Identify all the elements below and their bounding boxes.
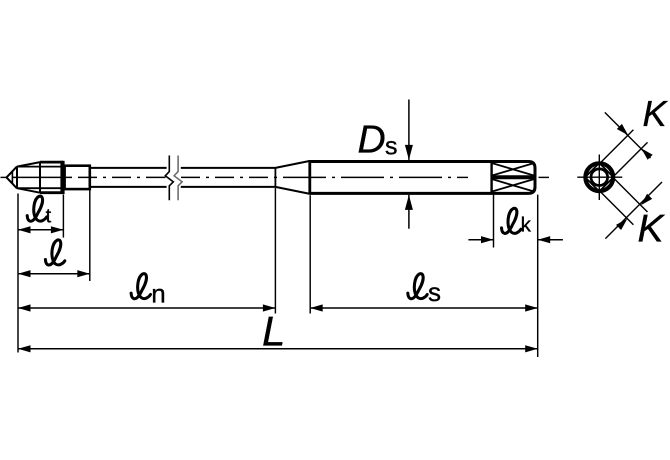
label ln: [131, 274, 150, 299]
thread crest chamfer slope: [17, 162, 40, 167]
extension line at shank start: [309, 195, 311, 313]
svg-text:L: L: [262, 308, 285, 355]
extension line at tap end (right datum): [537, 195, 539, 357]
thread full-diameter start line: [39, 162, 41, 194]
label lk: [502, 208, 521, 233]
break line right: [174, 156, 182, 201]
K bottom dimension line: [605, 182, 662, 239]
end view inner circle: [591, 169, 608, 186]
extension line at thread end: [89, 190, 91, 281]
K bottom extension lines: [601, 193, 633, 225]
neck end line: [274, 168, 276, 187]
svg-text:K: K: [643, 93, 669, 134]
dim ls: [310, 307, 538, 309]
dim L: [18, 348, 538, 350]
thread runout block: [65, 166, 90, 189]
dim ln: [18, 307, 275, 309]
thread end thick line: [60, 161, 64, 194]
shank outline: [310, 162, 535, 194]
extension line at square start: [493, 195, 495, 248]
extension line at neck end: [274, 188, 276, 314]
K top dimension line: [605, 112, 651, 158]
neck top edge: [90, 167, 167, 169]
shank start line: [308, 160, 311, 194]
square section center bar: [492, 175, 535, 179]
extension line at thread start (left datum): [17, 194, 19, 353]
centerline: [1, 176, 7, 178]
svg-text:K: K: [638, 208, 666, 251]
label lt: [27, 196, 46, 221]
thread minor-diameter lines: [17, 166, 63, 168]
dim lk (outside arrows): [468, 239, 493, 241]
end view outer circle: [585, 163, 613, 191]
shank taper: [275, 161, 310, 168]
end view square (rotated 45): [585, 163, 613, 191]
extension line at chamfer end: [62, 194, 64, 237]
tip chamfer cone: [7, 166, 18, 177]
dim Ds vertical: [408, 100, 410, 160]
thread crest outline: [40, 161, 63, 164]
svg-text:t: t: [46, 206, 52, 228]
dim l: [18, 273, 90, 275]
label l: [45, 240, 64, 265]
break line left: [165, 156, 173, 201]
svg-text:s: s: [428, 277, 441, 307]
neck bottom edge: [90, 186, 167, 188]
end view cross centerlines: [577, 176, 622, 178]
label ls: [408, 274, 427, 299]
tap tip point: [7, 172, 13, 184]
square section boundary: [490, 162, 492, 194]
square section cross lower: [493, 179, 534, 191]
svg-text:D: D: [358, 119, 386, 162]
square section cross upper: [493, 163, 534, 175]
svg-text:k: k: [521, 214, 532, 237]
dim lt: [18, 229, 63, 231]
K top extension lines: [601, 130, 633, 162]
svg-text:n: n: [151, 279, 165, 309]
svg-text:s: s: [385, 133, 398, 161]
